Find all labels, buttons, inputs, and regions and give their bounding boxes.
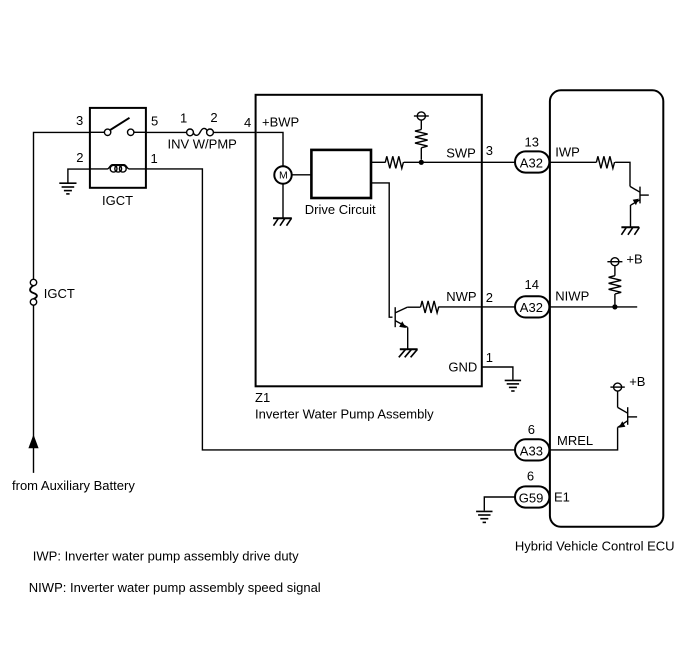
svg-text:14: 14 bbox=[525, 277, 539, 292]
svg-text:G59: G59 bbox=[519, 490, 544, 505]
svg-text:1: 1 bbox=[180, 110, 187, 125]
svg-text:6: 6 bbox=[528, 422, 535, 437]
resistor R-NWP bbox=[407, 301, 439, 313]
svg-text:A32: A32 bbox=[520, 300, 543, 315]
svg-text:IGCT: IGCT bbox=[44, 286, 75, 301]
svg-text:2: 2 bbox=[76, 150, 83, 165]
NIWP wire bbox=[549, 306, 637, 308]
svg-text:2: 2 bbox=[210, 110, 217, 125]
connector A33 bbox=[515, 439, 549, 460]
wire IWP to resistor bbox=[549, 161, 596, 163]
wire pin5 to fuse bbox=[146, 131, 187, 133]
hybrid vehicle control ECU box bbox=[550, 90, 663, 527]
svg-text:A32: A32 bbox=[520, 156, 543, 171]
svg-text:3: 3 bbox=[76, 113, 83, 128]
svg-text:IWP: IWP bbox=[555, 144, 580, 159]
relay switch blade bbox=[110, 118, 130, 131]
ground Q1 (chassis) bbox=[621, 227, 639, 235]
connector IGCT circles bbox=[30, 279, 36, 285]
wire motor to drive circuit bbox=[292, 174, 312, 176]
wire motor to ground bbox=[282, 184, 284, 218]
GND wire bbox=[482, 367, 513, 380]
wire fuse to Z1 bbox=[213, 131, 255, 133]
transistor Q2 NWP bbox=[395, 307, 408, 348]
Q2 emitter arrow bbox=[399, 321, 406, 328]
wire pin3 to left and down bbox=[34, 132, 90, 279]
ground Q2 (chassis) bbox=[399, 349, 418, 357]
svg-text:INV W/PMP: INV W/PMP bbox=[168, 136, 237, 151]
ground relay pin2 bbox=[59, 169, 90, 194]
svg-text:13: 13 bbox=[525, 134, 539, 149]
Q3 emitter arrow bbox=[619, 421, 626, 428]
svg-text:Z1: Z1 bbox=[255, 390, 270, 405]
resistor R-IWP bbox=[596, 156, 630, 186]
connector IGCT squiggle bbox=[30, 286, 37, 300]
ground motor (chassis) bbox=[273, 218, 292, 226]
E1 ground wire bbox=[484, 497, 515, 511]
resistor pull-up SWP vertical bbox=[415, 130, 428, 160]
arrow from auxiliary battery bbox=[28, 435, 38, 449]
resistor pull-up NIWP bbox=[609, 276, 622, 305]
ground E1 (earth) bbox=[476, 511, 492, 522]
wire down to arrow bbox=[33, 305, 35, 473]
drive circuit U1 box bbox=[311, 150, 371, 198]
svg-text:E1: E1 bbox=[554, 490, 570, 505]
svg-text:5: 5 bbox=[151, 113, 158, 128]
svg-text:from Auxiliary Battery: from Auxiliary Battery bbox=[12, 478, 135, 493]
svg-text:IWP: Inverter water pump assem: IWP: Inverter water pump assembly drive … bbox=[33, 549, 299, 564]
NWP wire from Z1 to A32 bbox=[439, 306, 515, 308]
svg-text:IGCT: IGCT bbox=[102, 193, 133, 208]
relay switch contact circles bbox=[104, 129, 110, 135]
transistor Q3 MREL bbox=[618, 391, 638, 427]
resistor R-SWP bbox=[371, 156, 515, 168]
+B terminal MREL bbox=[610, 383, 624, 391]
MREL wire to transistor bbox=[549, 427, 617, 450]
svg-text:Hybrid Vehicle Control ECU: Hybrid Vehicle Control ECU bbox=[515, 539, 675, 554]
svg-text:NWP: NWP bbox=[446, 289, 476, 304]
svg-text:6: 6 bbox=[527, 469, 534, 484]
pull-up terminal circle bbox=[414, 112, 429, 130]
junction dot SWP bbox=[419, 160, 424, 165]
connector G59 bbox=[515, 486, 549, 507]
MREL wire from relay pin1 bbox=[146, 169, 515, 450]
ground GND (earth) bbox=[505, 380, 521, 391]
svg-text:M: M bbox=[279, 169, 288, 181]
junction dot NIWP bbox=[612, 304, 617, 309]
svg-text:1: 1 bbox=[151, 151, 158, 166]
relay IGCT box bbox=[90, 108, 146, 188]
Q1 emitter arrow bbox=[633, 199, 639, 206]
svg-text:+B: +B bbox=[626, 252, 642, 267]
fuse INV W/PMP bbox=[187, 128, 214, 135]
svg-text:NIWP: NIWP bbox=[555, 289, 589, 304]
svg-text:NIWP: Inverter water pump asse: NIWP: Inverter water pump assembly speed… bbox=[29, 580, 321, 595]
svg-text:+B: +B bbox=[629, 374, 645, 389]
svg-text:2: 2 bbox=[486, 290, 493, 305]
svg-text:Inverter Water Pump Assembly: Inverter Water Pump Assembly bbox=[255, 406, 434, 421]
svg-text:1: 1 bbox=[486, 350, 493, 365]
svg-text:4: 4 bbox=[244, 115, 251, 130]
svg-text:GND: GND bbox=[448, 360, 477, 375]
transistor Q1 IWP bbox=[630, 186, 649, 227]
Z1 inverter water pump assembly box bbox=[256, 95, 482, 387]
motor M bbox=[274, 166, 291, 183]
svg-text:3: 3 bbox=[486, 143, 493, 158]
svg-text:A33: A33 bbox=[520, 443, 543, 458]
+B terminal NIWP bbox=[607, 258, 622, 276]
relay coil L1 bbox=[89, 165, 146, 172]
svg-text:Drive Circuit: Drive Circuit bbox=[305, 202, 376, 217]
svg-text:MREL: MREL bbox=[557, 433, 593, 448]
connector A32 pin14 bbox=[515, 296, 549, 317]
svg-text:+BWP: +BWP bbox=[262, 114, 299, 129]
wire drive circuit to Q2 base bbox=[371, 183, 393, 317]
connector A32 pin13 bbox=[515, 151, 549, 172]
svg-text:SWP: SWP bbox=[446, 145, 476, 160]
wire +BWP to motor bbox=[257, 132, 283, 166]
